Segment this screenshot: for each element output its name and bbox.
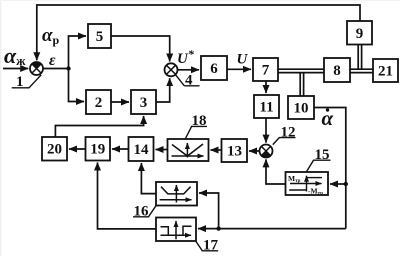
svg-text:21: 21	[378, 64, 393, 80]
svg-text:19: 19	[90, 142, 105, 158]
svg-text:5: 5	[96, 29, 104, 45]
svg-text:2: 2	[95, 95, 103, 111]
svg-text:ε: ε	[49, 52, 56, 69]
svg-text:10: 10	[294, 101, 309, 117]
svg-text:7: 7	[262, 63, 270, 79]
svg-text:20: 20	[47, 142, 62, 158]
svg-text:13: 13	[227, 144, 242, 160]
svg-text:9: 9	[356, 26, 364, 42]
svg-text:8: 8	[333, 63, 341, 79]
svg-text:11: 11	[259, 100, 273, 116]
svg-text:3: 3	[140, 95, 148, 111]
svg-text:U: U	[237, 52, 249, 68]
svg-text:6: 6	[210, 61, 218, 77]
svg-text:14: 14	[134, 142, 150, 158]
